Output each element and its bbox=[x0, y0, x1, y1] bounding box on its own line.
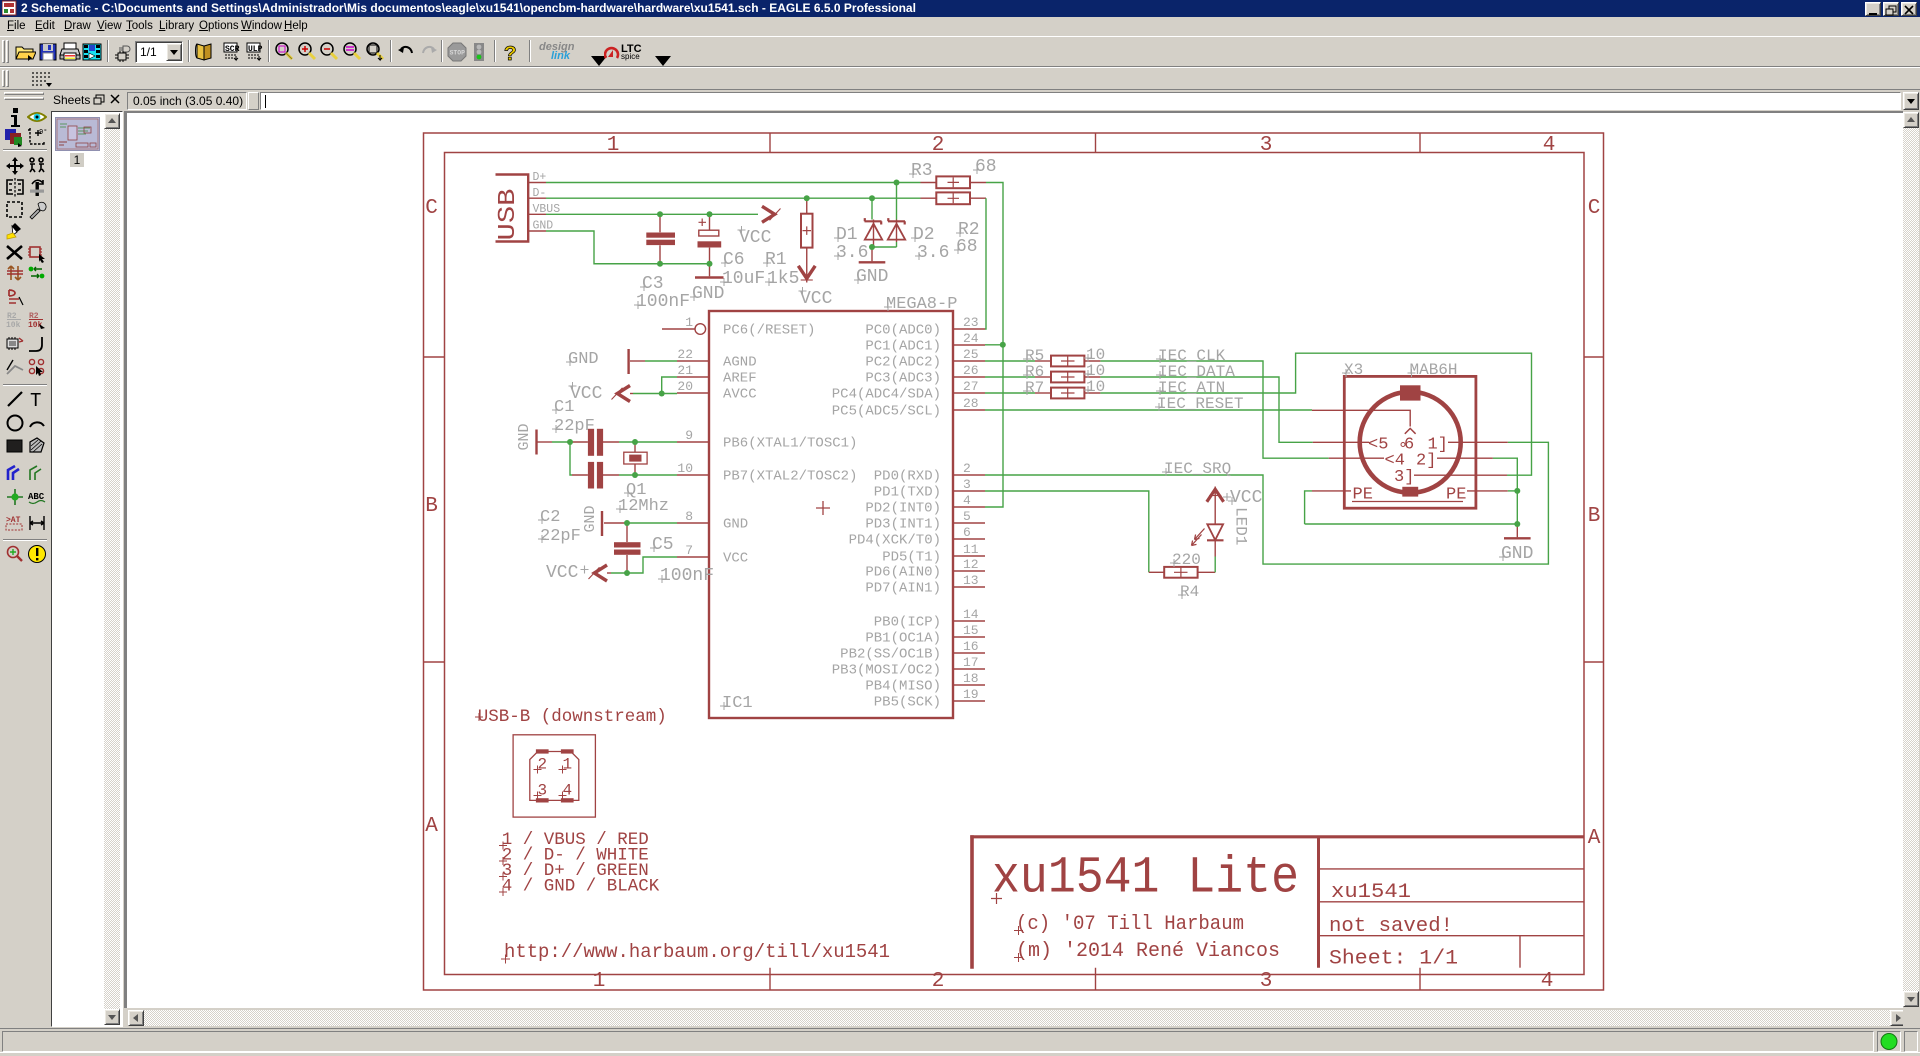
svg-text:PB6(XTAL1/TOSC1): PB6(XTAL1/TOSC1) bbox=[723, 436, 857, 452]
svg-text:4: 4 bbox=[1543, 134, 1556, 157]
DIN pin 6 lead and arrow bbox=[1312, 410, 1416, 454]
svg-text:C: C bbox=[425, 197, 438, 220]
supply VCC arrow on VBUS bbox=[762, 206, 781, 222]
resistor R2 bbox=[921, 192, 987, 204]
ground symbol at pin 22 bbox=[629, 349, 677, 374]
miter bbox=[27, 334, 47, 354]
svg-text:xu1541 Lite: xu1541 Lite bbox=[992, 849, 1299, 908]
pinswap bbox=[5, 263, 25, 283]
svg-text:PB5(SCK): PB5(SCK) bbox=[874, 695, 941, 711]
ground symbol under C6 bbox=[695, 264, 724, 278]
group bbox=[5, 200, 25, 220]
DIN pin 4 lead bbox=[1329, 452, 1405, 471]
svg-text:GND: GND bbox=[856, 267, 888, 287]
IC1 pin 1 PC6/RESET with bubble bbox=[662, 315, 815, 339]
IC1 pin 20 AVCC bbox=[677, 379, 757, 403]
IC1 right pins PC0-PC5 bbox=[832, 315, 985, 420]
gateswap bbox=[27, 263, 47, 283]
USB-B pad top right bbox=[561, 749, 574, 753]
svg-text:1: 1 bbox=[593, 970, 606, 993]
svg-text:20: 20 bbox=[677, 379, 693, 394]
svg-text:IEC_RESET: IEC_RESET bbox=[1157, 395, 1243, 413]
invoke bbox=[27, 357, 47, 377]
capacitor C2 bbox=[572, 462, 619, 489]
svg-text:4: 4 bbox=[963, 493, 971, 508]
svg-text:1: 1 bbox=[563, 756, 573, 774]
undo / redo bbox=[395, 41, 417, 63]
svg-text:X3: X3 bbox=[1344, 361, 1363, 379]
USB-B pad bottom left bbox=[536, 798, 549, 802]
USB pin VBUS bbox=[529, 213, 546, 215]
dimension bbox=[27, 512, 47, 532]
USB-B pin origin crosses bbox=[534, 766, 567, 800]
svg-text:12Mhz: 12Mhz bbox=[618, 497, 669, 516]
svg-text:C1: C1 bbox=[554, 398, 574, 417]
ULP bbox=[245, 41, 267, 63]
horizontal scrollbar bbox=[128, 1010, 144, 1026]
frame column ticks bbox=[770, 133, 1420, 990]
circle bbox=[5, 413, 25, 433]
svg-text:17: 17 bbox=[963, 655, 979, 670]
svg-text:PB7(XTAL2/TOSC2): PB7(XTAL2/TOSC2) bbox=[723, 469, 857, 485]
junction dots bbox=[567, 180, 1520, 577]
svg-text:D2: D2 bbox=[913, 225, 935, 245]
svg-text:2: 2 bbox=[932, 970, 945, 993]
IC1 right pins PB0-PB5 bbox=[832, 607, 985, 711]
svg-text:PB3(MOSI/OC2): PB3(MOSI/OC2) bbox=[832, 663, 941, 679]
svg-text:16: 16 bbox=[963, 639, 979, 654]
library bbox=[193, 41, 215, 63]
junction bbox=[5, 487, 25, 507]
svg-text:MAB6H: MAB6H bbox=[1410, 361, 1458, 379]
svg-text:22: 22 bbox=[677, 347, 693, 362]
svg-text:6: 6 bbox=[963, 525, 971, 540]
mark bbox=[27, 127, 47, 147]
svg-text:27: 27 bbox=[963, 379, 979, 394]
svg-text:D+: D+ bbox=[533, 171, 547, 184]
title block row lines bbox=[1319, 869, 1585, 936]
IC1 pin 9 PB6 bbox=[677, 428, 857, 452]
USB connector X1 body bbox=[495, 173, 528, 242]
wire R4 up to LED1 bbox=[1214, 557, 1216, 573]
polygon bbox=[27, 436, 47, 456]
wire PE ground bus bbox=[1305, 491, 1518, 524]
svg-text:R4: R4 bbox=[1180, 583, 1199, 601]
rotate bbox=[27, 178, 47, 198]
svg-text:22pF: 22pF bbox=[554, 417, 595, 436]
rect bbox=[5, 436, 25, 456]
svg-text:13: 13 bbox=[963, 573, 979, 588]
svg-text:(m) '2014 René Viancos: (m) '2014 René Viancos bbox=[1016, 940, 1280, 963]
wire C2 to pin10 bbox=[619, 474, 677, 476]
svg-text:PC6(/RESET): PC6(/RESET) bbox=[723, 323, 815, 339]
svg-text:9: 9 bbox=[685, 428, 693, 443]
thumbnail bbox=[55, 117, 100, 151]
svg-text:STOP: STOP bbox=[450, 50, 466, 57]
resistor R1 bbox=[801, 198, 813, 262]
svg-text:PD2(INT0): PD2(INT0) bbox=[865, 501, 941, 517]
svg-text:A: A bbox=[1588, 827, 1601, 850]
svg-text:D-: D- bbox=[533, 187, 547, 200]
USB-B pad bottom right bbox=[561, 798, 574, 802]
svg-text:AGND: AGND bbox=[723, 355, 757, 371]
wire C1 to pin9 bbox=[619, 441, 677, 443]
wire bbox=[5, 389, 25, 409]
svg-text:PB1(OC1A): PB1(OC1A) bbox=[865, 631, 941, 647]
crystal Q1 bbox=[624, 442, 647, 475]
origin cross USB-B label bbox=[475, 713, 483, 721]
resistor R5 bbox=[985, 356, 1100, 367]
move bbox=[5, 156, 25, 176]
svg-text:PD7(AIN1): PD7(AIN1) bbox=[865, 581, 941, 597]
svg-text:A: A bbox=[425, 815, 438, 838]
resistor R3 bbox=[921, 176, 987, 188]
svg-text:2: 2 bbox=[538, 756, 548, 774]
DIN pin 3 lead bbox=[1394, 468, 1507, 487]
svg-text:26: 26 bbox=[963, 363, 979, 378]
origin cross after VCC pin7 label bbox=[581, 566, 589, 574]
ground symbol left of C1 bbox=[537, 430, 573, 455]
svg-text:10uF: 10uF bbox=[722, 269, 765, 289]
svg-text:GND: GND bbox=[692, 284, 724, 304]
svg-text:ULP: ULP bbox=[248, 45, 263, 54]
svg-text:28: 28 bbox=[963, 396, 979, 411]
design link bbox=[537, 41, 595, 65]
svg-text:18: 18 bbox=[963, 671, 979, 686]
svg-text:PD0(RXD): PD0(RXD) bbox=[874, 469, 941, 485]
svg-text:not saved!: not saved! bbox=[1329, 915, 1453, 938]
svg-text:PC3(ADC3): PC3(ADC3) bbox=[865, 371, 941, 387]
USB-B pad top left bbox=[536, 749, 549, 753]
ground symbol at DIN bbox=[1504, 524, 1531, 538]
svg-text:5: 5 bbox=[963, 509, 971, 524]
text bbox=[27, 389, 47, 409]
label origin crosses bbox=[538, 166, 1507, 710]
svg-text:VCC: VCC bbox=[570, 384, 603, 404]
svg-text:24: 24 bbox=[963, 331, 979, 346]
split bbox=[5, 357, 25, 377]
svg-text:21: 21 bbox=[677, 363, 693, 378]
svg-text:3: 3 bbox=[1260, 134, 1273, 157]
erc bbox=[5, 544, 25, 564]
DIN pin 1 lead bbox=[1428, 436, 1508, 455]
svg-text:C2: C2 bbox=[540, 508, 560, 527]
svg-text:4 / GND / BLACK: 4 / GND / BLACK bbox=[502, 877, 660, 897]
svg-text:R7: R7 bbox=[1025, 379, 1044, 397]
net IEC_SRQ wire to DIN pin1 bbox=[985, 442, 1548, 564]
svg-text:22pF: 22pF bbox=[540, 527, 581, 546]
svg-text:GND: GND bbox=[582, 505, 599, 532]
show (eye) bbox=[27, 107, 47, 127]
net IEC_DATA wire to DIN pin5 bbox=[1100, 377, 1312, 442]
change (wrench) bbox=[27, 200, 47, 220]
title block divider bbox=[1317, 837, 1320, 968]
resistor R7 bbox=[985, 388, 1100, 399]
add bbox=[27, 243, 47, 263]
origin cross before VCC at LED bbox=[1223, 493, 1231, 501]
capacitor C6 polarized bbox=[698, 214, 722, 263]
zener diode D2 bbox=[888, 218, 905, 242]
SCR bbox=[222, 41, 244, 63]
capacitor C5 bbox=[614, 523, 641, 573]
USB pin D+ bbox=[529, 182, 546, 184]
svg-text:xu1541: xu1541 bbox=[1331, 881, 1411, 904]
svg-text:3]: 3] bbox=[1394, 468, 1414, 487]
wire AREF down to AVCC bbox=[662, 377, 677, 394]
frame row ticks bbox=[424, 357, 1604, 662]
wire net USBD+ horizontal bbox=[546, 182, 921, 184]
svg-text:C: C bbox=[1588, 197, 1601, 220]
svg-text:PC2(ADC2): PC2(ADC2) bbox=[865, 355, 941, 371]
origin cross (m) bbox=[1014, 953, 1023, 962]
DIN PE underline bbox=[1352, 501, 1463, 503]
IC1 MEGA8-P box bbox=[709, 311, 953, 718]
origin cross title bbox=[991, 893, 1002, 904]
bus bbox=[5, 463, 25, 483]
svg-text:SCR: SCR bbox=[225, 45, 240, 54]
svg-text:http://www.harbaum.org/till/xu: http://www.harbaum.org/till/xu1541 bbox=[504, 941, 890, 963]
open bbox=[14, 41, 36, 63]
resistor R4 bbox=[1149, 567, 1215, 578]
svg-text:Sheet: 1/1: Sheet: 1/1 bbox=[1329, 948, 1458, 971]
IC1 origin cross bbox=[816, 501, 830, 515]
svg-text:MEGA8-P: MEGA8-P bbox=[886, 295, 957, 314]
USB-B legend origin crosses bbox=[499, 842, 507, 897]
label bbox=[27, 487, 47, 507]
net IEC_CLK wire to DIN pin4 bbox=[1100, 361, 1328, 458]
svg-text:VCC: VCC bbox=[739, 228, 772, 248]
svg-text:C6: C6 bbox=[723, 250, 745, 270]
supply VCC arrow at AVCC pointing left bbox=[612, 386, 634, 402]
net bbox=[27, 463, 47, 483]
svg-text:PC5(ADC5/SCL): PC5(ADC5/SCL) bbox=[832, 404, 941, 420]
stop bbox=[446, 41, 468, 63]
traffic bbox=[468, 41, 490, 63]
IC1 right pins PD0-PD7 bbox=[849, 461, 985, 597]
display layers bbox=[4, 127, 24, 147]
ground symbol under zeners bbox=[859, 247, 886, 262]
supply VCC arrow above LED1 bbox=[1207, 487, 1224, 503]
svg-text:12: 12 bbox=[963, 557, 979, 572]
wire PD1 to R4 bbox=[985, 491, 1149, 572]
vertical scrollbar bbox=[1903, 112, 1919, 128]
svg-text:AVCC: AVCC bbox=[723, 387, 757, 403]
USB pin GND bbox=[529, 230, 546, 232]
supply VCC arrow at pin7 pointing left bbox=[589, 565, 612, 581]
help bbox=[500, 41, 522, 63]
IC1 pin 22 AGND bbox=[677, 347, 757, 371]
wire pin24 to vertical bbox=[985, 344, 1003, 346]
DIN PE pin left bbox=[1305, 486, 1373, 525]
svg-text:(c) '07 Till Harbaum: (c) '07 Till Harbaum bbox=[1016, 913, 1244, 936]
panel scrollbar bbox=[104, 113, 120, 129]
svg-text:10: 10 bbox=[677, 461, 693, 476]
svg-text:1: 1 bbox=[607, 134, 620, 157]
frame outer border bbox=[424, 133, 1604, 990]
sheet combo bbox=[135, 41, 183, 63]
svg-text:100nF: 100nF bbox=[660, 566, 714, 586]
IC1 pin 10 PB7 bbox=[677, 461, 857, 485]
svg-text:8: 8 bbox=[685, 509, 693, 524]
wire D- down to zener D1 bbox=[871, 198, 873, 219]
svg-text:PD6(AIN0): PD6(AIN0) bbox=[865, 565, 941, 581]
svg-text:10k: 10k bbox=[6, 321, 21, 330]
wire DIN pin2 to ground bbox=[1493, 458, 1517, 491]
svg-text:14: 14 bbox=[963, 607, 979, 622]
delete bbox=[5, 243, 25, 263]
svg-text:23: 23 bbox=[963, 315, 979, 330]
IC1 pin 7 VCC bbox=[677, 543, 748, 567]
wire pin7 VCC jog bbox=[611, 557, 677, 573]
svg-text:PD3(INT1): PD3(INT1) bbox=[865, 517, 941, 533]
IC1 pin 21 AREF bbox=[677, 363, 757, 387]
svg-text:VCC: VCC bbox=[546, 563, 579, 583]
value gray bbox=[5, 310, 25, 330]
svg-text:4: 4 bbox=[1541, 970, 1554, 993]
svg-text:1: 1 bbox=[685, 315, 693, 330]
svg-text:1k5: 1k5 bbox=[767, 269, 799, 289]
svg-text:4: 4 bbox=[563, 782, 573, 800]
USB-B connector outer square bbox=[513, 735, 595, 817]
smash bbox=[5, 334, 25, 354]
USB-B connector shell bbox=[530, 752, 579, 801]
resistor R6 bbox=[985, 372, 1100, 383]
svg-text:11: 11 bbox=[963, 542, 979, 557]
svg-text:GND: GND bbox=[568, 350, 599, 369]
svg-text:PC1(ADC1): PC1(ADC1) bbox=[865, 339, 941, 355]
DIN connector ring bbox=[1360, 392, 1461, 493]
wire AVCC to VCC arrow bbox=[633, 393, 677, 395]
svg-text:?: ? bbox=[504, 44, 517, 63]
svg-text:2]: 2] bbox=[1416, 452, 1436, 471]
svg-text:AREF: AREF bbox=[723, 371, 757, 387]
svg-text:USB: USB bbox=[495, 189, 522, 241]
svg-text:IC1: IC1 bbox=[722, 694, 753, 713]
svg-text:T: T bbox=[30, 390, 41, 409]
attribute bbox=[5, 512, 25, 532]
DIN pin 2 lead bbox=[1416, 452, 1493, 471]
title block outer box bbox=[970, 835, 1584, 838]
wire from R3 to PC1/PD2 vertical bbox=[985, 183, 1003, 508]
svg-text:220: 220 bbox=[1172, 551, 1201, 569]
LED LED1 bbox=[1192, 502, 1224, 557]
svg-text:VCC: VCC bbox=[1230, 488, 1263, 508]
mirror bbox=[5, 178, 25, 198]
save bbox=[37, 41, 59, 63]
svg-text:3: 3 bbox=[538, 782, 548, 800]
zoom icons bbox=[273, 41, 295, 63]
wire net VBUS horizontal bbox=[546, 213, 758, 215]
origin cross (c) bbox=[1014, 926, 1023, 935]
svg-text:3.6: 3.6 bbox=[836, 243, 868, 263]
svg-text:3: 3 bbox=[1260, 970, 1273, 993]
svg-text:15: 15 bbox=[963, 623, 979, 638]
svg-text:PD4(XCK/T0): PD4(XCK/T0) bbox=[849, 533, 941, 549]
net IEC_ATN wire over DIN to pin3 bbox=[1100, 353, 1531, 475]
wire zener bottoms joined bbox=[872, 242, 897, 247]
open board icon bbox=[113, 41, 135, 63]
wire net USBD- horizontal bbox=[546, 197, 921, 199]
svg-text:C3: C3 bbox=[642, 274, 664, 294]
svg-text:D1: D1 bbox=[836, 225, 858, 245]
name bbox=[5, 287, 25, 307]
ground symbol at pin 8 bbox=[602, 511, 677, 536]
svg-text:PB0(ICP): PB0(ICP) bbox=[874, 615, 941, 631]
copy bbox=[27, 156, 47, 176]
DIN top notch bbox=[1400, 385, 1421, 400]
origin cross url bbox=[501, 955, 510, 964]
USB pin D- bbox=[529, 197, 546, 199]
svg-text:9°: 9° bbox=[39, 128, 47, 137]
svg-text:PD5(T1): PD5(T1) bbox=[882, 550, 941, 566]
svg-text:PC4(ADC4/SDA): PC4(ADC4/SDA) bbox=[832, 387, 941, 403]
info bbox=[6, 107, 26, 127]
arc bbox=[27, 413, 47, 433]
svg-text:GND: GND bbox=[1501, 544, 1533, 564]
DIN pin 5 lead bbox=[1313, 436, 1389, 455]
svg-text:6: 6 bbox=[1404, 436, 1414, 455]
print bbox=[59, 41, 81, 63]
svg-text:C5: C5 bbox=[652, 535, 674, 555]
net IEC_RESET wire to DIN pin6 bbox=[985, 409, 1312, 411]
svg-text:GND: GND bbox=[723, 517, 748, 533]
svg-text:2: 2 bbox=[963, 461, 971, 476]
svg-text:VCC: VCC bbox=[723, 551, 748, 567]
svg-text:USB-B (downstream): USB-B (downstream) bbox=[478, 707, 667, 727]
capacitor C3 bbox=[646, 214, 675, 263]
DIN connector X3 box bbox=[1344, 376, 1476, 508]
svg-text:100nF: 100nF bbox=[636, 292, 690, 312]
svg-text:PB4(MISO): PB4(MISO) bbox=[865, 679, 941, 695]
zener diode D1 bbox=[865, 218, 883, 247]
svg-text:VCC: VCC bbox=[800, 289, 833, 309]
svg-text:B: B bbox=[425, 495, 438, 518]
svg-text:PB2(SS/OC1B): PB2(SS/OC1B) bbox=[840, 647, 941, 663]
supply VCC arrow below R1 pointing down bbox=[798, 263, 815, 283]
DIN PE pin right bbox=[1446, 486, 1517, 505]
errors bbox=[27, 544, 47, 564]
svg-text:B: B bbox=[1588, 505, 1601, 528]
LTC bbox=[604, 43, 654, 65]
svg-text:PD1(TXD): PD1(TXD) bbox=[874, 485, 941, 501]
svg-text:7: 7 bbox=[685, 543, 693, 558]
svg-text:LED1: LED1 bbox=[1232, 507, 1250, 545]
cam bbox=[81, 41, 103, 63]
wire D+ down to zener D2 bbox=[896, 183, 898, 220]
svg-text:2: 2 bbox=[932, 134, 945, 157]
svg-text:3.6: 3.6 bbox=[917, 243, 949, 263]
wire from R2 to PC0 vertical bbox=[985, 198, 986, 329]
svg-text:R1: R1 bbox=[765, 250, 787, 270]
capacitor C1 bbox=[572, 429, 619, 456]
svg-text:PC0(ADC0): PC0(ADC0) bbox=[865, 323, 941, 339]
value active bbox=[27, 310, 47, 330]
svg-text:GND: GND bbox=[516, 423, 533, 450]
svg-text:68: 68 bbox=[956, 237, 978, 257]
svg-text:68: 68 bbox=[975, 157, 997, 177]
wire net GND from USB bbox=[546, 231, 710, 264]
svg-text:19: 19 bbox=[963, 687, 979, 702]
cut bbox=[5, 221, 25, 241]
svg-text:IEC_SRQ: IEC_SRQ bbox=[1164, 460, 1231, 478]
IC1 pin 8 GND bbox=[677, 509, 748, 533]
svg-text:3: 3 bbox=[963, 477, 971, 492]
title block small divider bbox=[1519, 936, 1521, 968]
DIN bottom notch bbox=[1402, 487, 1418, 497]
svg-text:R3: R3 bbox=[911, 161, 933, 181]
wire C1 junction down to C2 bbox=[570, 442, 572, 475]
svg-text:25: 25 bbox=[963, 347, 979, 362]
